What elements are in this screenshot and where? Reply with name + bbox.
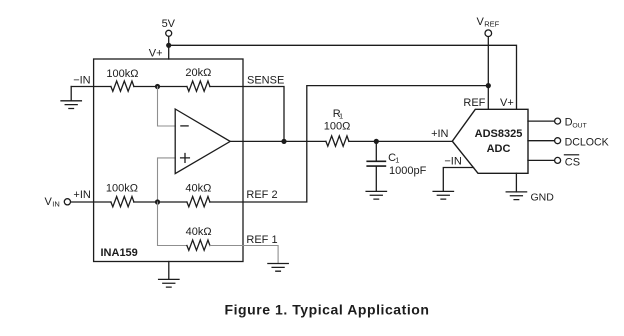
- wire op-amp output: [230, 140, 326, 142]
- ground at C1: [366, 191, 386, 199]
- node top summing junction: [155, 84, 160, 89]
- svg-text:SENSE: SENSE: [247, 74, 284, 86]
- svg-text:ADC: ADC: [487, 143, 511, 155]
- svg-text:1: 1: [339, 111, 343, 120]
- svg-text:1: 1: [395, 155, 399, 164]
- wire bottom row middle: [134, 201, 187, 203]
- terminal DOUT: [555, 118, 561, 124]
- wire REF 1 to ground: [210, 246, 278, 264]
- wire DOUT pin stub: [528, 120, 554, 122]
- resistor R 100k (top): [111, 81, 134, 91]
- wire op-amp plus input: [158, 158, 176, 202]
- terminal 5V: [166, 30, 172, 36]
- wire VREF vertical to ADS8325 REF pin: [487, 37, 489, 110]
- svg-text:CS: CS: [565, 156, 580, 168]
- resistor R1 100 ohm: [326, 136, 349, 146]
- svg-text:GND: GND: [531, 192, 555, 204]
- IC U1 INA159 box: [94, 59, 243, 262]
- resistor R 100k (bottom): [111, 197, 134, 207]
- capacitor C1: [375, 141, 377, 191]
- svg-text:INA159: INA159: [101, 247, 138, 259]
- svg-text:+IN: +IN: [431, 128, 448, 140]
- terminal VIN: [64, 199, 70, 205]
- svg-text:V+: V+: [149, 48, 163, 60]
- wire REF 2 to VREF node: [210, 86, 488, 202]
- svg-text:100kΩ: 100kΩ: [106, 68, 138, 80]
- svg-text:V+: V+: [500, 97, 514, 109]
- svg-text:20kΩ: 20kΩ: [185, 67, 211, 79]
- wire 5V rail to ADS8325 V+ pin: [169, 45, 517, 109]
- op-amp plus sign: [181, 154, 190, 163]
- wire CS pin stub: [528, 159, 554, 161]
- wire DCLOCK pin stub: [528, 140, 554, 142]
- svg-text:−IN: −IN: [73, 74, 90, 86]
- svg-text:REF 1: REF 1: [246, 234, 277, 246]
- svg-text:DCLOCK: DCLOCK: [565, 136, 609, 148]
- svg-text:40kΩ: 40kΩ: [186, 226, 212, 238]
- overline on CS label: [564, 154, 578, 156]
- wire 5V stem down to INA159 V+ pin: [168, 37, 170, 59]
- svg-text:IN: IN: [52, 200, 60, 209]
- op-amp minus sign: [181, 125, 188, 127]
- wire R1 to ADC +IN: [349, 140, 452, 142]
- ground at ADC GND: [506, 192, 526, 200]
- svg-text:OUT: OUT: [572, 122, 586, 129]
- wire SENSE to output node: [210, 87, 284, 142]
- svg-text:D: D: [565, 117, 573, 129]
- IC U2 ADS8325 ADC polygon: [452, 109, 528, 173]
- node VREF junction: [486, 83, 491, 88]
- wire -IN input: [71, 86, 111, 88]
- resistor R 20k: [187, 81, 210, 91]
- svg-text:1000pF: 1000pF: [389, 165, 427, 177]
- wire +IN input: [71, 201, 111, 203]
- wire ADC GND pin: [515, 173, 517, 192]
- svg-text:ADS8325: ADS8325: [475, 128, 523, 140]
- node 5V junction: [166, 43, 171, 48]
- svg-text:+IN: +IN: [73, 189, 90, 201]
- svg-text:REF 2: REF 2: [246, 189, 277, 201]
- resistor R 40k (REF 2): [187, 197, 210, 207]
- ground below INA159: [159, 262, 179, 288]
- ground at -IN input: [61, 87, 81, 109]
- svg-text:5V: 5V: [162, 18, 176, 30]
- svg-text:100kΩ: 100kΩ: [106, 182, 138, 194]
- terminal VREF: [485, 30, 492, 37]
- wire feedback to op-amp minus input: [158, 87, 176, 127]
- svg-text:Figure 1. Typical Application: Figure 1. Typical Application: [225, 302, 430, 318]
- terminal CS: [555, 157, 561, 163]
- node bottom summing junction: [155, 199, 160, 204]
- svg-text:40kΩ: 40kΩ: [185, 182, 211, 194]
- node SENSE/output junction: [281, 139, 286, 144]
- wire to resistor 40k REF 1: [158, 202, 187, 246]
- terminal DCLOCK: [555, 138, 561, 144]
- svg-text:100Ω: 100Ω: [324, 121, 351, 133]
- resistor R 40k (REF 1): [187, 240, 210, 250]
- svg-text:−IN: −IN: [444, 155, 461, 167]
- ground at REF 1: [268, 264, 288, 272]
- svg-text:REF: REF: [463, 97, 485, 109]
- ground at ADC -IN: [433, 191, 453, 199]
- wire ADC -IN to ground: [443, 168, 473, 192]
- op-amp A1: [175, 109, 230, 174]
- node C1 junction: [374, 139, 379, 144]
- wire top row middle: [134, 86, 187, 88]
- svg-text:REF: REF: [484, 20, 499, 29]
